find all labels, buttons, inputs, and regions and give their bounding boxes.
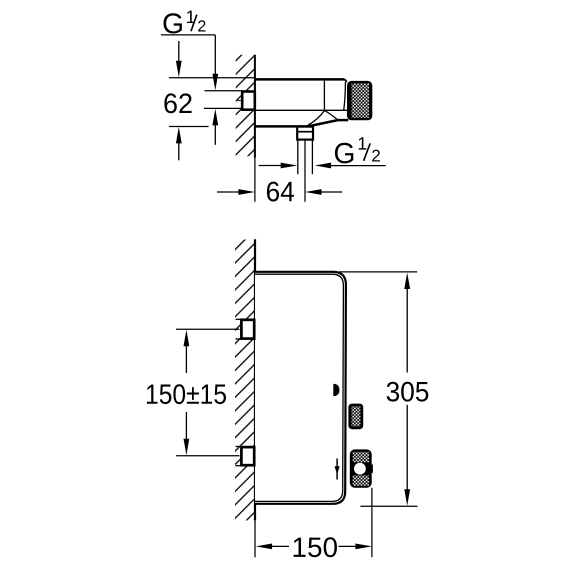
dim line upper segment: [406, 288, 408, 372]
dim 64: right tail: [321, 191, 343, 193]
large knurled knob with button: [350, 449, 372, 487]
dim line lower segment: [406, 405, 408, 490]
wall face extension to 150 dim: [254, 520, 256, 557]
arrowhead up: [404, 273, 410, 290]
dim 64 text: [267, 182, 294, 202]
arrowhead down to G1/2 fitting top: [212, 74, 218, 91]
arrowhead right at knob edge: [355, 544, 372, 550]
knob side tab: [371, 464, 373, 473]
knob button circle: [354, 463, 366, 475]
dim 305: bottom extension line: [360, 505, 417, 507]
dim 305 text: [387, 382, 429, 402]
dim 62: body top extension line: [169, 77, 255, 79]
control knob (top view, knurled): [347, 81, 372, 120]
G1/2 fitting bottom dim line: [204, 107, 242, 109]
dim G1/2 outlet: left tail: [259, 165, 283, 167]
body bottom line under neck: [338, 119, 348, 122]
small knurled knob (side): [348, 404, 363, 430]
fitting centerline stub: [236, 100, 241, 102]
label underline: [161, 34, 215, 36]
arrowhead left at wall: [256, 544, 273, 550]
wall hatch (bottom view): [235, 240, 255, 521]
dim 62: lower leader: [178, 143, 180, 161]
body bottom edge: [255, 125, 308, 128]
dim 62: arrowhead down: [176, 61, 182, 78]
body internal vertical: [323, 81, 325, 111]
outlet pipe right edge: [311, 140, 313, 175]
lower wall fitting stubs: [236, 446, 242, 448]
leader tail below fitting arrow: [214, 125, 216, 145]
arrowhead left at pipe right edge: [315, 163, 332, 169]
label G 1/2 (outlet): [335, 137, 380, 163]
arrowhead up: [184, 330, 190, 347]
body top edge: [255, 78, 344, 81]
dim 150: right extension line: [371, 488, 373, 558]
G1/2 fitting top dim line: [205, 90, 243, 92]
dim 305: top extension line: [339, 271, 417, 273]
outlet pipe left edge: [297, 140, 299, 175]
arrowhead up to fitting bottom: [212, 109, 218, 126]
body bottom diagonal: [308, 120, 338, 126]
upper wall fitting: [241, 320, 254, 339]
dim 62: arrowhead up: [176, 127, 182, 143]
body top right step: [344, 79, 347, 82]
dim line left segment: [271, 545, 289, 547]
outlet nut: [297, 127, 313, 140]
dim 62: text: [164, 93, 191, 113]
body outline outer (bottom view): [255, 272, 346, 504]
right tail / label underline: [330, 165, 385, 167]
pull indicator arrow: [336, 459, 338, 480]
arrowhead right at pipe left edge: [281, 163, 298, 169]
dim line lower segment: [185, 412, 187, 439]
dim 150±15: lower extension line: [176, 455, 239, 457]
neck front edge: [344, 82, 346, 110]
fillet curve lower: [307, 111, 325, 126]
arrowhead down: [404, 489, 410, 506]
leader line from label down: [214, 35, 216, 75]
button mark (black D): [333, 384, 339, 396]
outlet nut inner line: [297, 131, 313, 133]
body mid horizontal line: [255, 109, 347, 111]
dim line upper segment: [185, 346, 187, 374]
body outline inner: [255, 274, 343, 501]
dim 62: body bottom extension line: [169, 126, 209, 128]
dim 62: upper leader: [178, 41, 180, 62]
arrowhead left at pipe centerline: [305, 189, 322, 195]
wall face extension line down to 64 dim: [254, 158, 256, 202]
wall face line (bottom view): [254, 239, 256, 520]
wall fitting (top view, G1/2 union): [242, 92, 255, 110]
wall face line (top view): [254, 55, 256, 158]
dim 150±15 text: [147, 384, 226, 404]
label G 1/2 (top left): [163, 11, 205, 34]
dim 150 text: [294, 537, 337, 557]
wall hatch (top view): [236, 55, 255, 156]
upper wall fitting stubs: [236, 318, 242, 320]
lower wall fitting: [241, 447, 254, 465]
outlet pipe centerline: [304, 141, 306, 202]
arrowhead right at wall face: [238, 189, 255, 195]
sweep curve to neck: [324, 111, 337, 120]
dim 150±15: upper extension line: [176, 328, 239, 330]
arrowhead down: [184, 439, 190, 456]
dim 64: left tail: [217, 191, 241, 193]
dim line right segment: [339, 545, 357, 547]
